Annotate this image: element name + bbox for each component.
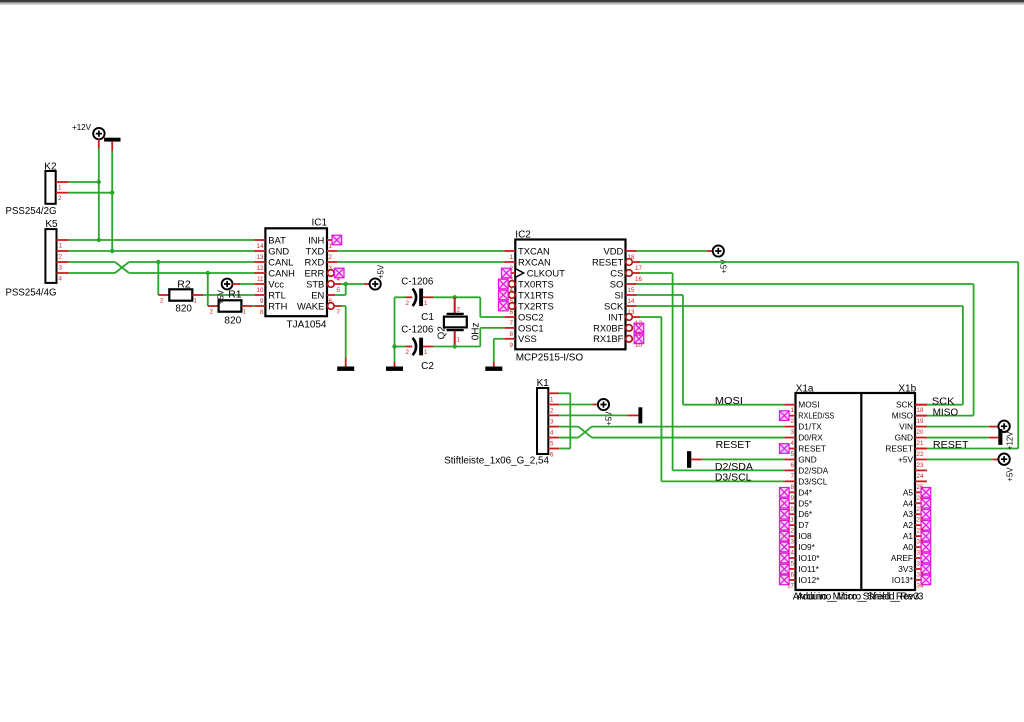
svg-text:RESET: RESET <box>798 444 826 454</box>
IC1 pin 4 ERR bubble and no-connect marker <box>328 270 335 277</box>
wire K2 pin1 to +12V <box>69 181 99 183</box>
IC1 left pin names <box>268 234 295 311</box>
svg-text:IC1: IC1 <box>311 218 327 229</box>
svg-text:BAT: BAT <box>268 234 286 245</box>
svg-text:2: 2 <box>160 298 164 305</box>
svg-text:19: 19 <box>917 418 924 425</box>
wire VSS to ground <box>494 339 505 367</box>
svg-text:TX0RTS: TX0RTS <box>518 278 554 289</box>
junction CANL R2 tap <box>156 260 160 264</box>
resistor R2 <box>158 289 203 304</box>
wire K1 pin4 pre-crossover <box>559 426 578 428</box>
wire CANH down to R1 <box>207 273 209 306</box>
svg-text:X1a: X1a <box>796 383 814 394</box>
svg-text:3: 3 <box>59 265 63 272</box>
IC2 pin 1 TXCAN stub <box>504 250 515 252</box>
wire X1a GND to bar <box>691 458 784 460</box>
svg-text:MOSI: MOSI <box>715 396 743 407</box>
svg-text:IO12*: IO12* <box>798 575 820 585</box>
svg-text:IO9*: IO9* <box>798 542 815 552</box>
wire VIN to +12V <box>927 426 998 428</box>
junction C rail ground tap <box>392 344 396 348</box>
svg-text:IC2: IC2 <box>515 229 531 240</box>
svg-text:9: 9 <box>510 342 514 349</box>
junction +12V K2 pin1 <box>97 180 101 184</box>
wire K2 pin2 to GND <box>69 192 113 194</box>
IC2 pin 7 OSC2 stub <box>504 316 515 318</box>
svg-text:1: 1 <box>243 309 247 316</box>
wire net SCK IC2 to X1b <box>637 306 963 405</box>
svg-text:K2: K2 <box>44 161 57 172</box>
svg-text:+5V: +5V <box>605 411 614 426</box>
ground bar under WAKE <box>337 367 354 371</box>
svg-text:MCP2515-I/SO: MCP2515-I/SO <box>516 352 584 363</box>
wire crossover D1/D0 <box>578 427 592 438</box>
ground bar under VSS <box>485 367 502 371</box>
capacitor C1 <box>406 289 429 307</box>
IC2 pin 9 VSS stub <box>504 338 515 340</box>
svg-text:21: 21 <box>917 440 924 447</box>
svg-text:+5V: +5V <box>719 259 728 274</box>
supply bar GND symbol top-left <box>104 138 120 142</box>
ground bar at X1a GND <box>687 451 691 468</box>
wire EN horizontal <box>335 294 345 296</box>
K5 pin 2 <box>57 251 69 261</box>
svg-text:8: 8 <box>791 484 795 491</box>
svg-text:A1: A1 <box>903 531 914 541</box>
svg-text:7: 7 <box>510 320 514 327</box>
wire net SI to MOSI <box>637 295 785 405</box>
svg-text:IO10*: IO10* <box>798 553 820 563</box>
IC2 right pin numbers <box>628 254 643 349</box>
svg-text:VDD: VDD <box>604 245 624 256</box>
svg-text:TX2RTS: TX2RTS <box>518 300 554 311</box>
wire net RESET IC2 to X1b <box>640 262 1018 449</box>
svg-text:22: 22 <box>917 451 924 458</box>
wire CANH from K5 pin4 <box>69 272 116 274</box>
svg-text:TXCAN: TXCAN <box>518 245 550 256</box>
svg-text:A5: A5 <box>903 487 914 497</box>
svg-text:C-1206: C-1206 <box>401 324 433 335</box>
svg-text:INT: INT <box>608 311 623 322</box>
junction +12V BAT <box>97 238 101 242</box>
svg-text:27: 27 <box>917 506 924 513</box>
junction crystal top <box>453 295 457 299</box>
wire crossover CANL/CANH <box>115 262 129 273</box>
svg-text:10: 10 <box>635 342 642 349</box>
junction CANH R1 tap <box>206 271 210 275</box>
wire X1b +5V to supply <box>927 458 999 460</box>
svg-text:5: 5 <box>550 441 554 448</box>
svg-text:4: 4 <box>791 440 795 447</box>
svg-text:1: 1 <box>329 243 333 250</box>
svg-text:9: 9 <box>791 495 795 502</box>
svg-text:18: 18 <box>917 407 924 414</box>
svg-text:2: 2 <box>406 300 410 307</box>
IC1 pin 7 WAKE bubble and stub <box>328 303 342 310</box>
svg-text:A4: A4 <box>903 498 914 508</box>
wire CANH to IC1 <box>129 272 255 274</box>
svg-text:820: 820 <box>224 316 241 327</box>
svg-text:RTL: RTL <box>268 289 286 300</box>
svg-text:1: 1 <box>550 396 554 403</box>
svg-text:STB: STB <box>306 278 324 289</box>
svg-text:OSC2: OSC2 <box>518 311 544 322</box>
svg-text:+5V: +5V <box>377 264 386 279</box>
wire WAKE to ground <box>341 306 346 367</box>
IC2 pin 6 TX2RTS bubble and no-connect marker <box>509 303 516 310</box>
svg-text:18: 18 <box>628 254 635 261</box>
junction crystal bottom <box>453 344 457 348</box>
svg-text:RESET: RESET <box>933 440 969 451</box>
svg-text:7: 7 <box>791 473 795 480</box>
K1 pin 3 <box>548 415 559 425</box>
IC2 left pin names <box>518 245 565 344</box>
svg-text:TXD: TXD <box>306 245 325 256</box>
svg-text:1: 1 <box>424 349 428 356</box>
svg-text:Vcc: Vcc <box>268 278 284 289</box>
svg-text:28: 28 <box>917 517 924 524</box>
IC1 left pin stubs <box>254 240 265 306</box>
K2 pin 2 <box>56 193 69 203</box>
supply +12V symbol right <box>998 421 1009 432</box>
svg-text:30: 30 <box>917 539 924 546</box>
K1 pin 6 <box>548 449 559 459</box>
svg-text:SCK: SCK <box>932 396 955 407</box>
connector K5 <box>45 229 56 283</box>
svg-text:IO8: IO8 <box>798 531 812 541</box>
svg-text:EN: EN <box>311 289 324 300</box>
IC2 pin 13 SCK stub <box>626 305 637 307</box>
svg-text:11: 11 <box>788 517 795 524</box>
svg-text:12: 12 <box>635 320 642 327</box>
svg-text:D1/TX: D1/TX <box>798 422 822 432</box>
svg-text:1: 1 <box>791 407 795 414</box>
svg-text:SCK: SCK <box>896 400 914 410</box>
svg-text:GND: GND <box>268 245 289 256</box>
svg-text:GND: GND <box>895 433 913 443</box>
svg-text:10: 10 <box>257 287 264 294</box>
svg-text:MISO: MISO <box>892 411 914 421</box>
svg-text:CLKOUT: CLKOUT <box>527 267 565 278</box>
svg-text:6: 6 <box>791 462 795 469</box>
svg-text:5: 5 <box>510 298 514 305</box>
svg-text:C1: C1 <box>421 312 434 323</box>
svg-text:8: 8 <box>260 309 264 316</box>
svg-text:AREF: AREF <box>891 553 913 563</box>
svg-text:SI: SI <box>614 289 623 300</box>
IC2 pin 3 CLKOUT stub and no-connect marker <box>509 272 515 274</box>
svg-text:2: 2 <box>58 195 62 202</box>
svg-text:2: 2 <box>210 309 214 316</box>
wire net GND K5 to IC1 <box>69 250 256 252</box>
supply +5V symbol at Vcc <box>222 279 233 290</box>
svg-text:K5: K5 <box>45 219 58 230</box>
svg-text:D5*: D5* <box>798 498 813 508</box>
svg-text:D0/RX: D0/RX <box>798 433 823 443</box>
svg-text:7: 7 <box>337 309 341 316</box>
wire OSC bottom to OSC1 pin <box>480 328 504 347</box>
wire CANL from K5 pin3 <box>69 261 116 263</box>
wire net D1/TX to X1a <box>592 426 785 428</box>
IC2 pin 12 INT bubble and stub <box>626 314 640 321</box>
top window border bar <box>0 0 1024 5</box>
svg-text:5: 5 <box>791 451 795 458</box>
svg-text:13: 13 <box>787 539 794 546</box>
K1 pin 1 <box>548 393 559 403</box>
svg-text:Q2: Q2 <box>437 326 448 340</box>
svg-text:D3/SCL: D3/SCL <box>798 476 827 486</box>
IC1 pin 1 INH stub and no-connect marker <box>327 239 332 241</box>
svg-text:33: 33 <box>917 571 924 578</box>
svg-text:4: 4 <box>59 276 63 283</box>
svg-text:D3/SCL: D3/SCL <box>715 473 752 484</box>
svg-text:13: 13 <box>628 309 635 316</box>
X1b pin stubs and no-connect markers <box>915 405 931 585</box>
svg-text:+12V: +12V <box>1005 431 1014 450</box>
X1a pin numbers <box>787 407 794 589</box>
svg-text:29: 29 <box>917 528 924 535</box>
wire net BAT K5 to IC1 <box>69 239 256 241</box>
IC1 pin 5 STB bubble and stub <box>328 281 342 288</box>
svg-text:3V3: 3V3 <box>898 564 913 574</box>
svg-text:D7: D7 <box>798 520 809 530</box>
connector X1 Arduino shield body <box>796 393 916 590</box>
svg-text:24: 24 <box>917 473 924 480</box>
wire +12V vertical <box>98 139 100 240</box>
wire R2 to RTL <box>203 294 254 296</box>
svg-text:X1b: X1b <box>898 383 916 394</box>
K1 pin 2 <box>548 405 559 415</box>
K1 pin 5 <box>548 438 559 448</box>
svg-text:6: 6 <box>550 452 554 459</box>
svg-text:8: 8 <box>510 331 514 338</box>
wire X1b GND stub red <box>989 437 999 439</box>
svg-text:1: 1 <box>424 300 428 307</box>
svg-text:15: 15 <box>787 561 794 568</box>
IC2 pin 15 SO stub <box>626 283 637 285</box>
svg-text:MOSI: MOSI <box>798 400 819 410</box>
junction GND net <box>110 249 114 253</box>
svg-text:RXD: RXD <box>305 256 325 267</box>
wire K1 pin1 to pin6 loop <box>559 393 570 448</box>
svg-text:11: 11 <box>257 276 264 283</box>
svg-text:+5V: +5V <box>216 289 225 304</box>
svg-text:9: 9 <box>260 298 264 305</box>
svg-text:K1: K1 <box>537 378 550 389</box>
svg-text:14: 14 <box>787 550 794 557</box>
IC2 pin 17 RESET bubble and stub <box>626 259 640 266</box>
svg-text:WAKE: WAKE <box>297 300 324 311</box>
svg-text:16: 16 <box>787 571 794 578</box>
wire OSC left vertical to ground <box>394 297 396 366</box>
supply +5V symbol at K1 <box>598 399 609 410</box>
svg-text:RESET: RESET <box>716 440 752 451</box>
X1b pin names <box>885 400 913 585</box>
svg-text:GND: GND <box>798 454 816 464</box>
svg-text:CANL: CANL <box>268 256 293 267</box>
svg-text:12: 12 <box>257 265 264 272</box>
svg-text:A0: A0 <box>903 542 914 552</box>
svg-text:2: 2 <box>791 418 795 425</box>
svg-text:2: 2 <box>59 254 63 261</box>
svg-text:23: 23 <box>917 462 924 469</box>
svg-text:VIN: VIN <box>899 422 913 432</box>
svg-text:3: 3 <box>550 418 554 425</box>
ground bar at K1 pin3 <box>638 407 642 423</box>
wire OSC top rail <box>395 296 481 298</box>
svg-text:C-1206: C-1206 <box>401 276 433 287</box>
svg-text:5: 5 <box>337 287 341 294</box>
capacitor C2 <box>406 338 429 356</box>
svg-text:RXCAN: RXCAN <box>518 256 551 267</box>
svg-text:13: 13 <box>257 254 264 261</box>
svg-text:3: 3 <box>791 429 795 436</box>
svg-text:Arduino_Micro_Shield_Rev3: Arduino_Micro_Shield_Rev3 <box>797 591 924 602</box>
svg-text:14: 14 <box>628 298 635 305</box>
wire STB to EN vertical <box>345 284 347 295</box>
svg-text:2: 2 <box>510 265 514 272</box>
svg-text:20: 20 <box>917 429 924 436</box>
svg-text:CS: CS <box>610 267 623 278</box>
svg-text:1: 1 <box>457 337 461 344</box>
svg-text:IO13*: IO13* <box>892 575 914 585</box>
svg-text:CANH: CANH <box>268 267 295 278</box>
op-amp IC1 body TJA1054 <box>265 228 327 316</box>
IC2 right pin names <box>592 245 624 344</box>
IC2 left pin numbers <box>510 254 514 349</box>
svg-text:INH: INH <box>308 234 324 245</box>
IC1 right pin names <box>297 234 324 311</box>
svg-text:3: 3 <box>510 276 514 283</box>
svg-text:Stiftleiste_1x06_G_2,54: Stiftleiste_1x06_G_2,54 <box>444 455 549 466</box>
wire CANL down to R2 <box>157 262 159 295</box>
connector K1 <box>537 388 548 454</box>
svg-text:RX1BF: RX1BF <box>593 333 623 344</box>
wire R1 to RTH <box>252 305 254 307</box>
svg-text:D6*: D6* <box>798 509 813 519</box>
svg-text:TX1RTS: TX1RTS <box>518 289 554 300</box>
svg-text:6: 6 <box>510 309 514 316</box>
K2 pin 1 <box>56 182 69 192</box>
svg-text:17: 17 <box>635 265 642 272</box>
svg-text:14: 14 <box>257 243 264 250</box>
svg-text:RXLED/SS: RXLED/SS <box>798 411 834 421</box>
IC2 pin 14 SI stub <box>626 294 637 296</box>
svg-text:2: 2 <box>406 349 410 356</box>
IC1 pin 3 RXD stub <box>327 261 337 263</box>
svg-text:+12V: +12V <box>72 123 92 132</box>
svg-text:RTH: RTH <box>268 300 287 311</box>
wire X1b GND to bar <box>927 437 989 439</box>
svg-text:PSS254/2G: PSS254/2G <box>6 206 57 217</box>
svg-text:1: 1 <box>59 243 63 250</box>
svg-text:OSC1: OSC1 <box>518 322 544 333</box>
svg-text:16: 16 <box>635 276 642 283</box>
IC2 pin 18 VDD stub <box>626 250 637 252</box>
supply +5V symbol at STB <box>370 278 381 289</box>
svg-text:32: 32 <box>917 561 924 568</box>
wire OSC top to OSC2 pin <box>480 297 504 317</box>
wire OSC bottom rail <box>395 346 481 348</box>
IC2 pin 10 RX1BF bubble and no-connect marker <box>626 336 633 343</box>
svg-text:RESET: RESET <box>885 444 913 454</box>
svg-text:A2: A2 <box>903 520 914 530</box>
IC2 pin 5 TX1RTS bubble and no-connect marker <box>509 292 516 299</box>
svg-text:1: 1 <box>510 254 514 261</box>
svg-text:2: 2 <box>550 408 554 415</box>
svg-text:MISO: MISO <box>933 407 959 418</box>
wire net CS to D2/SDA <box>640 273 784 470</box>
svg-text:4: 4 <box>550 430 554 437</box>
crystal Q2 <box>444 297 467 346</box>
K5 pin 3 <box>57 262 69 272</box>
svg-text:10: 10 <box>787 506 794 513</box>
supply +12V symbol top-left <box>93 128 104 139</box>
svg-text:12: 12 <box>787 528 794 535</box>
svg-text:25: 25 <box>917 484 924 491</box>
svg-text:RX0BF: RX0BF <box>593 322 623 333</box>
wire VDD to +5V <box>637 250 713 252</box>
IC2 pin 8 OSC1 stub <box>504 327 515 329</box>
K5 pin 4 <box>57 273 69 283</box>
wire net TXD IC1 to IC2 <box>337 250 504 252</box>
svg-text:17: 17 <box>787 582 794 589</box>
X1a pin stubs and no-connect markers <box>780 405 796 585</box>
svg-text:IO11*: IO11* <box>798 564 819 574</box>
svg-text:D4*: D4* <box>798 487 813 497</box>
svg-text:RESET: RESET <box>592 256 624 267</box>
IC2 pin 16 CS bubble and stub <box>626 270 640 277</box>
supply bar GND symbol right <box>998 429 1002 445</box>
K5 pin 1 <box>57 240 69 250</box>
svg-text:34: 34 <box>917 582 924 589</box>
wire K1 pin5 pre-crossover <box>559 437 578 439</box>
wire net INT to D3/SCL <box>640 317 784 481</box>
supply +5V symbol at VDD <box>713 245 724 256</box>
svg-text:+5V: +5V <box>1005 467 1014 482</box>
svg-text:2: 2 <box>457 307 461 314</box>
wire +5V to Vcc <box>233 283 255 285</box>
op-amp IC2 body MCP2515 <box>515 240 625 350</box>
connector K2 <box>45 171 55 204</box>
wire GND vertical left <box>111 142 113 251</box>
svg-text:1: 1 <box>58 185 62 192</box>
wire net D0/RX to X1a <box>592 437 785 439</box>
wire STB to +5V <box>341 283 370 285</box>
svg-text:ERR: ERR <box>305 267 325 278</box>
wire net RXD IC1 to IC2 <box>337 261 504 263</box>
X1b pin numbers <box>917 407 924 589</box>
svg-text:R2: R2 <box>177 280 191 291</box>
IC1 left pin numbers <box>257 243 264 316</box>
svg-text:+5V: +5V <box>898 454 913 464</box>
junction STB EN tie <box>344 282 348 286</box>
X1a pin names <box>798 400 834 585</box>
wire CANL to IC1 <box>129 261 255 263</box>
IC1 pin 2 TXD stub <box>327 250 337 252</box>
svg-text:11: 11 <box>635 331 642 338</box>
K1 pin 4 <box>548 427 559 437</box>
svg-text:TJA1054: TJA1054 <box>287 320 327 331</box>
svg-text:820: 820 <box>175 303 192 314</box>
svg-text:2: 2 <box>329 254 333 261</box>
supply +5V symbol right <box>998 454 1009 465</box>
svg-text:D2/SDA: D2/SDA <box>798 465 828 475</box>
svg-text:C2: C2 <box>421 361 434 372</box>
wire K1 pin3 to ground bar <box>559 414 638 416</box>
svg-text:PSS254/4G: PSS254/4G <box>6 288 57 299</box>
